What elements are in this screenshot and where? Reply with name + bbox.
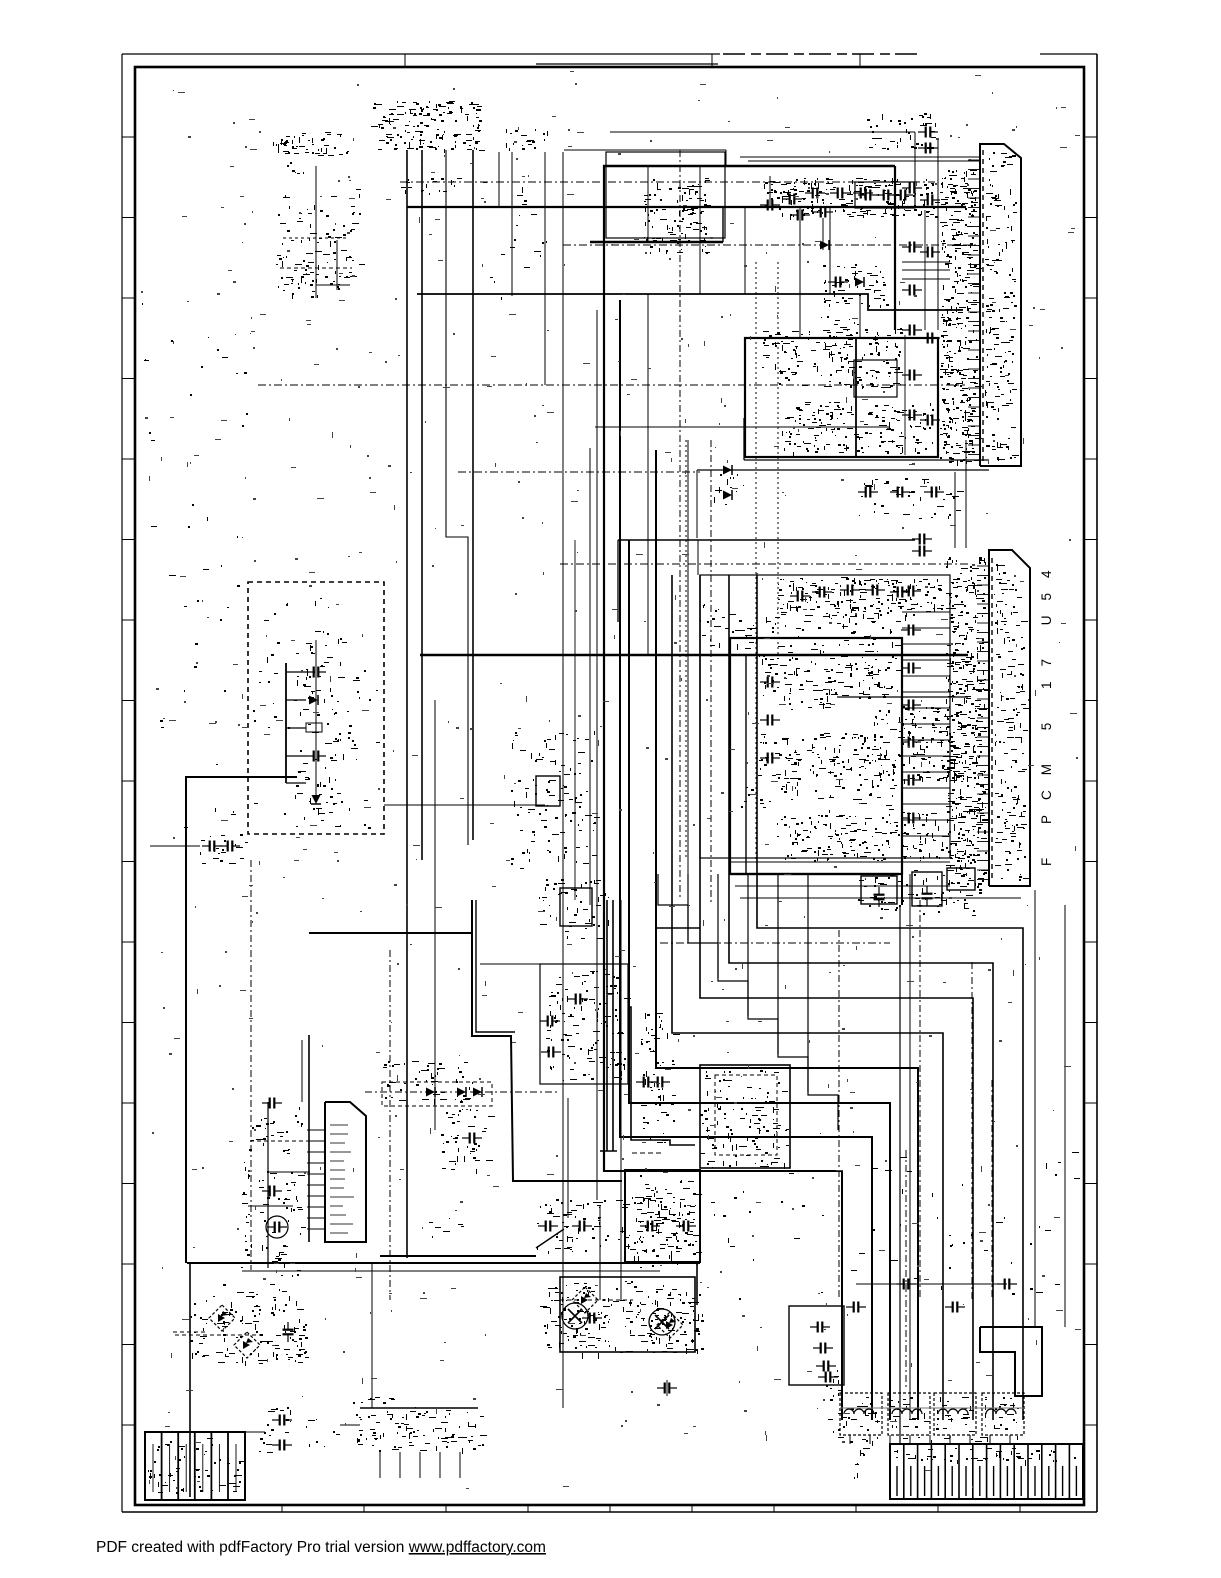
svg-text:F PCM 5 17 U54: F PCM 5 17 U54 — [1039, 555, 1054, 866]
svg-text:PDF created with pdfFactory Pr: PDF created with pdfFactory Pro trial ve… — [96, 1539, 546, 1556]
